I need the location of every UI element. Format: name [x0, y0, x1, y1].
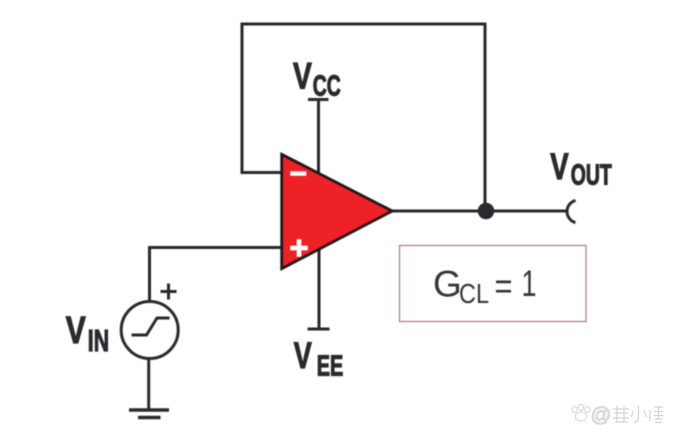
svg-text:IN: IN: [88, 323, 109, 358]
svg-text:G: G: [433, 264, 462, 305]
svg-text:V: V: [66, 310, 87, 352]
svg-text:CC: CC: [313, 71, 341, 103]
svg-text:=: =: [495, 266, 513, 307]
svg-text:OUT: OUT: [571, 160, 612, 192]
svg-text:CL: CL: [459, 278, 489, 309]
svg-text:@: @: [591, 404, 612, 427]
svg-text:1: 1: [522, 263, 537, 304]
svg-text:V: V: [294, 335, 312, 376]
svg-text:V: V: [550, 146, 569, 187]
svg-text:EE: EE: [317, 351, 344, 383]
svg-text:V: V: [293, 55, 312, 96]
